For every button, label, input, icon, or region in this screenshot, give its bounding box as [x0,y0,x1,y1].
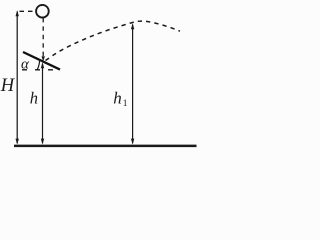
horizontal dashed reference for angle [22,69,57,71]
dashed drop line from ball [42,18,44,58]
svg-text:α: α [21,57,30,73]
arrowhead bottom of h [41,139,44,145]
svg-text:h: h [30,88,38,107]
arrowhead of drop line at impact point [42,56,45,61]
dimension line H [16,12,18,144]
ground [14,145,197,148]
svg-text:h: h [113,89,122,108]
trajectory dashed arc [46,21,181,60]
svg-text:1: 1 [123,99,128,109]
inclined board [23,52,60,70]
arrowhead bottom of h1 [131,139,134,145]
angle arc [37,60,39,70]
dimension line h [42,64,44,144]
arrowhead top of h (points up at incline) [41,62,44,68]
arrowhead top of h1 [131,23,134,29]
arrowhead top of H [16,10,19,16]
ball [36,5,49,18]
arrowhead bottom of H [16,139,19,145]
dashed connector from H line to ball [20,10,36,12]
dimension line h1 [132,25,134,144]
svg-text:H: H [0,76,16,96]
